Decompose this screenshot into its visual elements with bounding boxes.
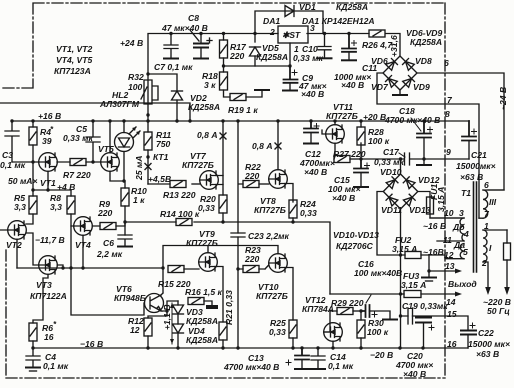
node dot R17/VD5 link xyxy=(222,64,225,67)
svg-text:×40 В: ×40 В xyxy=(304,167,327,177)
svg-text:3,15 А: 3,15 А xyxy=(401,280,426,290)
svg-text:КП727Б: КП727Б xyxy=(182,160,214,170)
svg-text:13: 13 xyxy=(445,261,455,271)
svg-text:КТ1: КТ1 xyxy=(153,152,169,162)
svg-text:3,3: 3,3 xyxy=(14,202,26,212)
svg-text:КД258А: КД258А xyxy=(186,335,218,345)
transistor VT6 xyxy=(145,268,164,313)
resistor R12 xyxy=(144,318,152,348)
svg-text:DA1: DA1 xyxy=(263,16,280,26)
capacitor C13 electrolytic xyxy=(286,348,309,369)
svg-text:VD7: VD7 xyxy=(371,82,389,92)
node dot HL2/VT5/R10 xyxy=(122,179,125,182)
capacitor C4 xyxy=(26,348,40,371)
svg-text:III: III xyxy=(489,197,497,207)
wire +24V top rail xyxy=(148,34,400,122)
label line C8 xyxy=(190,30,199,41)
svg-text:3,3: 3,3 xyxy=(50,202,62,212)
resistor R14 xyxy=(176,219,192,226)
capacitor C8 electrolytic xyxy=(194,34,212,59)
svg-text:VT4, VT5: VT4, VT5 xyxy=(56,55,93,65)
capacitor C6 xyxy=(118,235,132,247)
svg-text:1: 1 xyxy=(484,221,489,231)
op-amp regulator DA1 xyxy=(273,26,308,68)
node dots top rail xyxy=(169,32,350,35)
capacitor C3 xyxy=(5,121,19,162)
resistor R11 xyxy=(144,121,152,184)
node dot R27/R28/C15 xyxy=(359,157,362,160)
transistor VT7 xyxy=(200,171,223,190)
resistor R21 xyxy=(219,322,227,348)
capacitor C15 electrolytic xyxy=(354,159,370,187)
svg-text:VT1: VT1 xyxy=(40,178,56,188)
svg-text:3,15 А: 3,15 А xyxy=(392,244,417,254)
svg-text:R27 220: R27 220 xyxy=(333,149,366,159)
resistor R29 xyxy=(337,308,361,315)
wire pin7 to transformer xyxy=(377,73,479,218)
transistor VT8 xyxy=(269,121,293,202)
resistor R9 xyxy=(100,222,125,230)
svg-text:~16 В: ~16 В xyxy=(423,221,446,231)
capacitor C12 electrolytic xyxy=(304,121,319,144)
resistor R7 xyxy=(70,159,101,166)
fuse FU2 xyxy=(405,252,464,259)
resistor R27 xyxy=(334,156,361,163)
wire bridge2 left to FU2 row xyxy=(377,192,405,256)
fuse FU4 mains xyxy=(504,230,511,288)
svg-text:С7 0,1 мк: С7 0,1 мк xyxy=(154,62,193,72)
svg-text:15000мк×: 15000мк× xyxy=(456,161,496,171)
svg-text:6: 6 xyxy=(484,180,489,190)
svg-text:0,33 мк: 0,33 мк xyxy=(63,133,93,143)
wire R14 row xyxy=(125,222,330,294)
transformer winding D6 xyxy=(430,218,464,241)
svg-text:+4,5В: +4,5В xyxy=(148,174,171,184)
ground bridge1 bottom xyxy=(393,90,407,95)
svg-text:×63 В: ×63 В xyxy=(476,349,499,359)
x-mark 0.8A right xyxy=(275,143,281,149)
svg-text:3: 3 xyxy=(459,208,464,218)
resistor R16 xyxy=(188,298,218,310)
x-mark 0.8A xyxy=(220,133,226,139)
wire bridge2 top xyxy=(400,159,402,174)
resistor R4 xyxy=(29,121,37,162)
wire VD2 branch xyxy=(148,74,177,121)
svg-text:Выход: Выход xyxy=(448,279,477,289)
transformer T1 core xyxy=(474,182,477,272)
node dots row y268 xyxy=(61,266,84,269)
node dots bottom rail xyxy=(31,346,424,349)
svg-text:VT4: VT4 xyxy=(75,240,91,250)
wire VT6 emitter node xyxy=(148,301,178,318)
svg-text:VD13: VD13 xyxy=(409,205,431,215)
svg-text:КД258А: КД258А xyxy=(410,37,442,47)
rectifier bridge VD6-VD9 xyxy=(383,56,417,90)
node dot R29/R30/C16 xyxy=(359,309,362,312)
svg-text:VT2: VT2 xyxy=(6,240,22,250)
svg-text:100 к: 100 к xyxy=(368,136,390,146)
svg-text:3: 3 xyxy=(310,23,315,33)
transistor VT12 xyxy=(324,311,343,348)
transformer winding III xyxy=(479,190,504,218)
svg-text:×40 В: ×40 В xyxy=(332,193,355,203)
wire bridge2 bottom drop xyxy=(400,209,402,348)
svg-text:220: 220 xyxy=(244,171,260,181)
wire input left y103 xyxy=(0,103,190,121)
svg-text:2: 2 xyxy=(481,258,487,268)
capacitor C20 electrolytic xyxy=(416,318,434,349)
svg-text:С19 0,33мк: С19 0,33мк xyxy=(402,301,448,311)
svg-text:VD9: VD9 xyxy=(413,82,430,92)
transistor VT2 xyxy=(0,221,39,268)
svg-text:R19 1 к: R19 1 к xyxy=(228,105,258,115)
svg-text:0,1 мк: 0,1 мк xyxy=(328,361,354,371)
transistor VT3 xyxy=(33,256,63,323)
svg-text:R7 220: R7 220 xyxy=(63,170,91,180)
svg-text:+4 В: +4 В xyxy=(57,182,75,192)
svg-text:С22: С22 xyxy=(478,328,494,338)
svg-text:750: 750 xyxy=(156,139,171,149)
transformer winding Da xyxy=(460,244,464,259)
wire upper drive row y245 xyxy=(163,246,278,269)
node dot VT6 emitter xyxy=(165,309,168,312)
svg-text:100: 100 xyxy=(128,82,143,92)
svg-text:3 к: 3 к xyxy=(204,80,216,90)
wire R22 drop xyxy=(238,121,243,233)
transistor VT1 xyxy=(39,153,70,190)
node dots bridge2 drop xyxy=(399,253,402,317)
svg-text:1 к: 1 к xyxy=(133,195,145,205)
wire R17-VD5 xyxy=(224,65,291,67)
fuse FU1 xyxy=(418,192,464,219)
wire +16V/+20V main rail xyxy=(12,120,469,122)
svg-text:220: 220 xyxy=(229,51,245,61)
node dots R32 xyxy=(146,72,149,116)
wire 0.8A drop VT7 xyxy=(222,121,224,195)
svg-text:VD1: VD1 xyxy=(299,2,316,12)
svg-text:КП7122А: КП7122А xyxy=(30,291,67,301)
resistor R30 xyxy=(357,311,365,348)
resistor R23 xyxy=(243,265,269,273)
svg-text:VT1, VT2: VT1, VT2 xyxy=(56,44,93,54)
resistor R10 xyxy=(121,181,129,235)
rectifier bridge VD10-VD13 xyxy=(383,174,418,209)
capacitor C16 electrolytic xyxy=(361,305,397,320)
svg-text:0,1 мк: 0,1 мк xyxy=(43,361,69,371)
svg-text:R21 0,33: R21 0,33 xyxy=(224,290,234,325)
svg-text:VD11: VD11 xyxy=(381,205,402,215)
LED HL2 xyxy=(115,121,141,181)
svg-text:КД258А: КД258А xyxy=(188,102,220,112)
resistor R20 xyxy=(219,195,227,222)
svg-text:+16 В: +16 В xyxy=(38,111,61,121)
node dots R14 row xyxy=(221,220,294,223)
capacitor C23 xyxy=(231,233,245,237)
svg-text:R14 100 к: R14 100 к xyxy=(160,209,200,219)
svg-text:16: 16 xyxy=(44,332,54,342)
transistor VT11 xyxy=(322,121,344,159)
node dot C5 on gate row xyxy=(91,160,94,163)
label line C17 xyxy=(399,153,405,157)
label line C18 xyxy=(411,118,421,131)
resistor R26 xyxy=(369,30,385,37)
svg-text:15: 15 xyxy=(447,309,457,319)
svg-text:−20 В: −20 В xyxy=(370,350,393,360)
wire pin13 output xyxy=(422,255,462,281)
svg-text:220: 220 xyxy=(244,254,260,264)
svg-text:×40 В: ×40 В xyxy=(301,89,324,99)
svg-text:5: 5 xyxy=(463,247,468,257)
svg-text:50 Гц: 50 Гц xyxy=(487,306,510,316)
svg-text:КД258А: КД258А xyxy=(256,52,288,62)
svg-text:−16 В: −16 В xyxy=(80,339,103,349)
svg-text:КП784А: КП784А xyxy=(302,304,334,314)
svg-text:R32: R32 xyxy=(128,72,144,82)
label line C16 xyxy=(366,295,371,303)
capacitor C21 electrolytic xyxy=(462,121,477,159)
capacitor C19 xyxy=(408,308,413,324)
wire common row y268 xyxy=(17,267,163,269)
svg-text:220: 220 xyxy=(97,208,113,218)
svg-text:VT3: VT3 xyxy=(36,280,52,290)
svg-text:VT5: VT5 xyxy=(98,144,114,154)
svg-text:16: 16 xyxy=(447,339,457,349)
svg-text:0,33 мк: 0,33 мк xyxy=(293,53,323,63)
transistor VT4 xyxy=(71,217,100,268)
svg-text:+31,6: +31,6 xyxy=(389,35,399,57)
resistor R19 xyxy=(230,90,269,101)
svg-text:39: 39 xyxy=(42,136,52,146)
resistor R8 xyxy=(67,190,75,268)
svg-text:15000 мк×: 15000 мк× xyxy=(468,339,510,349)
resistor R22 xyxy=(243,181,269,188)
svg-text:АЛ307ГМ: АЛ307ГМ xyxy=(99,99,140,109)
svg-text:КД258А: КД258А xyxy=(186,316,218,326)
svg-text:VD12: VD12 xyxy=(418,175,440,185)
svg-text:2: 2 xyxy=(269,27,275,37)
capacitor C22 electrolytic xyxy=(461,323,476,348)
svg-text:0,1 мк: 0,1 мк xyxy=(0,160,26,170)
wire FU3 row xyxy=(330,293,401,295)
node dot R9/R10/C6 xyxy=(123,220,126,223)
svg-text:11: 11 xyxy=(443,235,452,245)
svg-text:С6: С6 xyxy=(103,238,114,248)
wire VT1 gate row xyxy=(12,161,39,163)
svg-text:VD10-VD13: VD10-VD13 xyxy=(333,230,379,240)
capacitor C7 xyxy=(164,34,178,59)
svg-text:С17: С17 xyxy=(383,147,400,157)
node КТ1 xyxy=(146,155,149,158)
capacitor C18 electrolytic xyxy=(417,121,433,165)
svg-text:9: 9 xyxy=(446,147,451,157)
resistor R28 xyxy=(357,121,365,159)
svg-text:+24 В: +24 В xyxy=(120,38,143,48)
svg-text:0,33 мк: 0,33 мк xyxy=(374,157,404,167)
resistor R25 xyxy=(289,320,297,348)
svg-text:2,2 мк: 2,2 мк xyxy=(96,249,123,259)
node dot y268 VT6 col xyxy=(161,266,164,269)
svg-text:0,33: 0,33 xyxy=(198,203,215,213)
capacitor C14 xyxy=(311,348,325,369)
transistor VT10 xyxy=(269,254,293,320)
svg-text:14: 14 xyxy=(446,297,456,307)
svg-text:50 мА×: 50 мА× xyxy=(8,176,38,186)
wire -16V/-20V bottom rail xyxy=(33,347,468,349)
wire pin6 to transformer xyxy=(417,73,504,190)
svg-text:100 мк×40В: 100 мк×40В xyxy=(354,268,402,278)
svg-text:~24 В: ~24 В xyxy=(498,87,508,110)
svg-text:47 мк×40 В: 47 мк×40 В xyxy=(161,23,208,33)
svg-text:4: 4 xyxy=(463,229,469,239)
svg-text:4700 мк×40 В: 4700 мк×40 В xyxy=(223,362,279,372)
svg-text:R13 220: R13 220 xyxy=(163,190,196,200)
svg-text:КД258А: КД258А xyxy=(336,2,368,12)
resistor R18 xyxy=(220,72,231,97)
wire VT6 base loop xyxy=(71,268,144,315)
svg-text:+1,1 В: +1,1 В xyxy=(162,304,172,330)
node dots gnd row xyxy=(399,157,426,160)
transformer winding I xyxy=(483,230,507,288)
svg-text:6: 6 xyxy=(444,58,449,68)
node dots main rail xyxy=(10,119,425,122)
capacitor C10 xyxy=(318,34,332,59)
svg-text:4700 мк×40 В: 4700 мк×40 В xyxy=(384,115,440,125)
svg-text:КП727Б: КП727Б xyxy=(186,238,218,248)
resistor R24 xyxy=(289,200,297,222)
diode VD2 xyxy=(172,91,183,100)
svg-text:КП948Б: КП948Б xyxy=(114,293,146,303)
measure arrow +1.1V xyxy=(170,303,174,344)
diode VD1 xyxy=(255,6,323,34)
svg-text:×40 В: ×40 В xyxy=(403,369,426,379)
wire +4V row xyxy=(33,189,71,191)
svg-text:−11,7 В: −11,7 В xyxy=(35,235,65,245)
node dot R4 bottom xyxy=(31,160,34,163)
transistor VT5 xyxy=(101,121,124,181)
resistor R6 xyxy=(29,323,37,348)
svg-text:КП727Б: КП727Б xyxy=(326,111,358,121)
wire R4 to +4V node xyxy=(32,162,34,190)
svg-text:С3: С3 xyxy=(2,150,13,160)
capacitor C17 xyxy=(405,153,410,165)
svg-text:КП7123А: КП7123А xyxy=(54,66,91,76)
svg-text:КП727Б: КП727Б xyxy=(256,291,288,301)
resistor R17 xyxy=(220,34,228,73)
mains arrows xyxy=(485,287,510,295)
svg-text:КД2706С: КД2706С xyxy=(336,241,374,251)
svg-text:R16 1,5 к: R16 1,5 к xyxy=(185,287,222,297)
svg-text:0,33: 0,33 xyxy=(300,208,317,218)
svg-text:С8: С8 xyxy=(188,13,199,23)
diode VD3 xyxy=(173,301,184,314)
svg-text:0,8 А: 0,8 А xyxy=(252,141,273,151)
svg-text:✱SТ: ✱SТ xyxy=(282,30,301,40)
resistor R32 xyxy=(141,80,158,104)
svg-text:КП727Б: КП727Б xyxy=(254,205,286,215)
capacitor C5 xyxy=(86,121,100,162)
svg-text:8: 8 xyxy=(445,109,450,119)
diode VD5 xyxy=(250,34,261,67)
diode VD4 xyxy=(173,314,184,348)
svg-text:+20 В: +20 В xyxy=(363,112,386,122)
transistor VT9 xyxy=(199,253,223,322)
wire gnd row y159 xyxy=(361,158,469,160)
svg-text:VD6: VD6 xyxy=(371,56,388,66)
fuse FU3 xyxy=(401,291,463,298)
svg-text:12: 12 xyxy=(130,325,140,335)
svg-text:×40 В: ×40 В xyxy=(341,80,364,90)
svg-text:25 мА: 25 мА xyxy=(134,155,144,181)
svg-text:R29 220: R29 220 xyxy=(331,298,364,308)
svg-text:Т1: Т1 xyxy=(461,188,471,198)
wire output row y316 xyxy=(401,316,469,330)
svg-text:0,33: 0,33 xyxy=(269,327,286,337)
svg-text:10: 10 xyxy=(444,208,454,218)
svg-text:VD10: VD10 xyxy=(380,167,402,177)
resistor R15 xyxy=(168,266,199,273)
resistor R13 xyxy=(148,181,200,188)
svg-text:0,8 А: 0,8 А xyxy=(197,130,218,140)
svg-text:С21: С21 xyxy=(471,150,487,160)
resistor R5 xyxy=(26,190,37,224)
svg-text:12: 12 xyxy=(444,250,454,260)
svg-text:С23 2,2мк: С23 2,2мк xyxy=(248,231,289,241)
capacitor C11 electrolytic xyxy=(342,34,357,61)
svg-text:×63 В: ×63 В xyxy=(460,172,483,182)
node dots +4V row xyxy=(31,188,49,191)
wire R23 drop xyxy=(238,237,243,348)
svg-text:~16В: ~16В xyxy=(423,247,444,257)
capacitor C9 electrolytic xyxy=(283,66,298,91)
svg-text:100 к: 100 к xyxy=(367,327,389,337)
svg-text:VD8: VD8 xyxy=(415,56,432,66)
x-mark 25mA xyxy=(145,164,151,170)
